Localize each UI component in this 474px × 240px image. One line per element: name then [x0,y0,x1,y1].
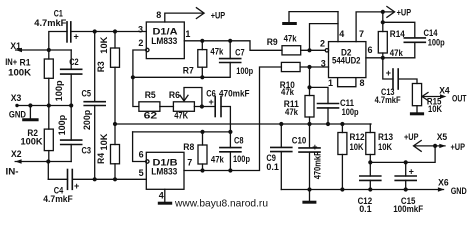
junction node B [307,65,311,69]
svg-text:100mkF: 100mkF [393,204,423,214]
resistor R1 [44,50,53,106]
svg-text:100K: 100K [8,67,32,77]
svg-text:R3: R3 [96,61,106,72]
junction X1 node [47,48,51,52]
svg-text:R1: R1 [20,57,31,67]
svg-text:47K: 47K [174,110,188,120]
capacitor C15 [395,162,416,189]
svg-text:0.1: 0.1 [359,204,372,214]
svg-text:3: 3 [321,58,326,68]
svg-text:47k: 47k [210,47,224,57]
wire +UP rail row [370,146,435,163]
svg-text:62: 62 [144,110,158,120]
junction pin5 row [93,177,118,181]
svg-text:X5: X5 [437,132,448,142]
svg-text:8: 8 [156,10,161,20]
svg-text:2: 2 [320,39,325,49]
resistor R12 [338,124,347,190]
svg-text:4.7mkF: 4.7mkF [34,18,67,28]
svg-text:GND: GND [451,186,467,196]
svg-text:R12: R12 [350,132,365,142]
wire gain chain left [133,77,139,106]
svg-text:C5: C5 [82,88,92,98]
svg-text:4.7mkF: 4.7mkF [375,95,401,105]
op-amp U2 D2 544UD2 [329,42,366,78]
wire bottom GND row [281,189,443,191]
terminal X5 arrow right [439,144,445,148]
svg-text:470mkF: 470mkF [219,88,250,98]
wire node A to pin4 column [310,24,339,51]
resistor R2 [44,106,53,162]
svg-text:7: 7 [359,29,364,39]
power +UP arrow pin8 [165,8,204,22]
power +UP arrow pin7 [356,7,395,42]
svg-text:+: + [74,181,79,191]
svg-text:LM833: LM833 [151,167,177,177]
svg-text:7: 7 [187,158,192,168]
junction pin1 row [200,39,232,43]
junction node A [307,48,311,52]
svg-text:C14: C14 [424,28,438,38]
junction X2 node [46,159,50,163]
ground symbol R15 [411,106,422,114]
terminal X6 arrow [438,187,444,191]
svg-text:4: 4 [159,191,164,201]
svg-text:C3: C3 [82,146,92,156]
svg-text:100K: 100K [21,136,44,146]
resistor R10 [281,62,300,71]
wire R6 to C6 [194,106,215,108]
svg-text:6: 6 [139,150,144,160]
terminal X3 dot [15,104,18,107]
op-amp U1A D1/A LM833 [146,22,184,59]
svg-text:+: + [312,142,317,152]
svg-text:10K: 10K [350,142,364,152]
svg-text:8: 8 [360,78,365,88]
svg-text:R7: R7 [183,65,194,75]
capacitor C3 [61,106,82,162]
svg-text:X1: X1 [10,41,21,51]
wire mid row [115,123,371,125]
pin 2 input circle D2 [325,49,328,52]
junction feedback row [131,75,205,79]
wire R9 to pin2 [301,49,326,51]
svg-text:10K: 10K [378,142,392,152]
wire GND row [17,105,72,107]
svg-text:1: 1 [185,29,190,39]
resistor R5 [139,102,160,112]
svg-text:www.bayu8.narod.ru: www.bayu8.narod.ru [174,198,268,210]
capacitor C9 [271,124,292,190]
capacitor C1 [49,22,147,50]
svg-text:OUT: OUT [452,94,467,104]
svg-text:R14: R14 [390,29,405,39]
svg-text:+UP: +UP [404,132,419,142]
junction mid row left [113,122,117,126]
svg-text:100p: 100p [236,66,253,76]
wire pins 1-8 correction [338,78,356,87]
capacitor C13 [383,58,417,89]
svg-text:X6: X6 [438,177,449,187]
potentiometer R15 [412,84,443,106]
capacitor C14 [383,22,426,58]
capacitor C11 [310,87,339,124]
svg-text:10K: 10K [99,133,109,151]
capacitor C4 [48,162,146,190]
svg-text:C2: C2 [69,57,79,67]
svg-text:544UD2: 544UD2 [332,56,361,66]
svg-text:GND: GND [9,110,26,120]
resistor R14 [378,12,387,58]
net +UP arrow X5 left [414,141,446,152]
svg-text:10K: 10K [428,104,442,114]
junction feedback row bottom [200,130,232,134]
wire pin2 feedback [133,50,146,77]
junction +UP rail dots [368,160,408,164]
pin 2 input circle [146,48,149,51]
junction output node [381,56,385,60]
svg-text:C6: C6 [206,88,216,98]
junction R11 C11 tap [307,85,311,89]
svg-text:470mkF: 470mkF [313,151,323,179]
svg-text:5: 5 [139,168,144,178]
wire feedback row bottom [133,131,231,133]
resistor R4 [111,124,120,179]
resistor R13 [366,124,375,162]
svg-text:+: + [74,32,79,42]
pin 6 input circle [146,160,149,163]
junction R14 top [381,10,385,14]
capacitor C7 [220,41,241,78]
terminal X4 arrow [440,94,446,98]
resistor R8 [198,132,207,171]
terminal X1 arrow [16,48,72,52]
resistor R9 [282,46,301,55]
svg-text:IN+: IN+ [5,57,17,67]
svg-text:100p: 100p [57,114,67,135]
svg-text:+: + [409,167,414,177]
svg-text:+: + [209,97,214,107]
wire feedback row top [133,76,230,78]
svg-text:X2: X2 [11,149,22,159]
capacitor C6 [215,97,230,132]
svg-text:2: 2 [138,38,143,48]
svg-text:C10: C10 [292,136,307,146]
svg-text:100p: 100p [233,154,250,164]
svg-text:LM833: LM833 [151,36,177,46]
resistor R3 [111,32,120,125]
svg-text:47k: 47k [211,155,225,165]
junction R14 C14 row [381,20,385,24]
wire R5 to R6 [160,106,174,108]
svg-text:R4: R4 [96,153,106,164]
svg-text:1: 1 [328,78,333,88]
svg-text:X3: X3 [11,93,21,103]
resistor R11 [305,67,314,124]
wire R10 to pin3 [300,66,328,68]
junction R6 wiper [200,104,204,108]
op-amp U1B D1/B LM833 [146,152,184,189]
capacitor C8 [220,132,241,171]
svg-text:100p: 100p [54,80,64,102]
svg-text:10K: 10K [99,36,109,54]
svg-text:47k: 47k [281,87,295,97]
svg-text:4.7mkF: 4.7mkF [43,194,73,204]
svg-text:+: + [386,68,391,78]
svg-text:4: 4 [339,29,344,39]
svg-text:+UP: +UP [397,7,412,17]
svg-text:100p: 100p [428,38,445,48]
svg-text:C1: C1 [54,9,63,19]
svg-text:X4: X4 [439,85,450,95]
svg-text:C8: C8 [234,135,244,145]
junction GND row R1R2 [28,103,73,107]
svg-text:6: 6 [368,45,373,55]
potentiometer R6 [173,88,202,112]
junction pin7 row [200,168,232,172]
capacitor C12 [360,162,381,189]
junction mid row dots [279,122,344,126]
wire pin6 feedback [133,132,146,162]
svg-text:47k: 47k [285,107,299,117]
wire output row [366,57,415,59]
junction top row [93,29,118,33]
ground symbol pin4 D1B [159,189,170,203]
wire pin7 row [184,67,281,171]
terminal X2 arrow [15,159,71,163]
capacitor C10 [299,124,320,190]
wire pin1 row [184,41,282,51]
svg-text:C7: C7 [235,47,245,57]
svg-text:IN-: IN- [6,167,19,177]
svg-text:R5: R5 [145,90,156,100]
svg-text:R8: R8 [183,142,194,152]
svg-text:R13: R13 [378,132,393,142]
svg-text:0.1: 0.1 [266,162,279,172]
capacitor C5 [84,32,105,180]
resistor R7 [198,41,207,78]
capacitor C2 [61,50,82,106]
junction bottom row dots [307,187,407,191]
svg-text:200p: 200p [82,109,92,130]
svg-text:+UP: +UP [451,142,466,152]
ground symbol X3 [24,106,37,120]
junction X5 node [433,144,437,148]
svg-text:R6: R6 [169,90,180,100]
ground symbol top [284,12,338,24]
svg-text:+UP: +UP [211,10,226,20]
ground symbol bottom [304,190,315,203]
svg-text:100p: 100p [342,107,359,117]
svg-text:R9: R9 [267,37,278,47]
svg-text:47k: 47k [390,48,404,58]
svg-text:47k: 47k [284,34,298,44]
svg-text:3: 3 [138,25,143,35]
wire pin4 column [337,12,339,42]
